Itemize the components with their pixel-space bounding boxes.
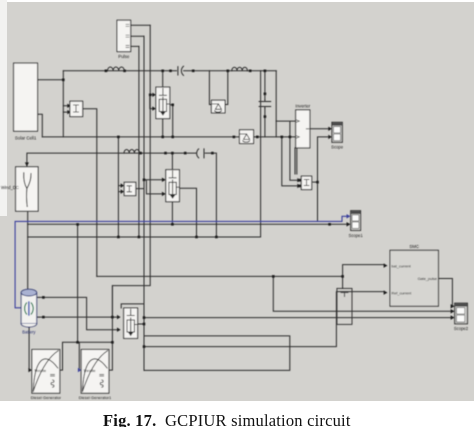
svg-text:Scope: Scope <box>331 145 344 150</box>
wire mosfet2 gate <box>144 180 162 194</box>
wire mosfet3 top link <box>121 304 144 324</box>
wire measure block inputs <box>282 137 298 186</box>
inductor L3 row2 <box>124 150 140 154</box>
svg-text:Gate_pulse: Gate_pulse <box>418 277 437 281</box>
wire solar out1 <box>38 79 64 81</box>
block current sensor B <box>124 182 136 195</box>
wire gate line from pulse p2 long vertical x=144 <box>143 36 145 370</box>
wire mosfet2 right port <box>179 188 196 237</box>
arrowheads blue <box>78 214 351 372</box>
wire diode1 left vertical <box>209 71 211 105</box>
wire shunt capacitor branch x=264.9 <box>264 71 266 137</box>
blue signal wire to scope1 and battery <box>15 216 347 307</box>
svg-text:Diesel Generator1: Diesel Generator1 <box>79 395 112 400</box>
wire battery minus <box>39 316 117 318</box>
svg-text:Diesel Generator: Diesel Generator <box>31 395 62 400</box>
svg-text:Battery: Battery <box>22 330 36 335</box>
svg-text:Ref_current: Ref_current <box>392 291 413 295</box>
wire bus y=225.1 to Scope1 in2 <box>28 223 347 225</box>
wire branch x=273.3 to Scope2 in2 <box>273 276 451 311</box>
wire diesel1 output riser <box>60 224 113 370</box>
wire bus y=237 <box>28 137 261 237</box>
svg-text:SMC: SMC <box>409 244 419 249</box>
wire mosfet1 right port <box>170 105 173 137</box>
capacitor C2 shunt plates <box>259 100 271 108</box>
scope icon Scope2 <box>454 303 469 331</box>
block Wind_DC <box>1 167 38 211</box>
block current sensor A <box>70 101 83 116</box>
svg-text:Inverter: Inverter <box>295 104 310 109</box>
diode D2 <box>240 130 254 144</box>
wire bus y=276.4 to SMC <box>97 265 384 289</box>
svg-text:Throttle: Throttle <box>83 369 95 373</box>
wire pulse p3 vertical <box>138 46 140 237</box>
transistor mosfet1 <box>156 87 170 119</box>
wire dc link right corner x=276.2 <box>275 71 277 137</box>
wire sensor A output down <box>83 109 97 277</box>
wire battery to diesel1 throttle <box>28 327 30 371</box>
wire shunt branch x=260.6 upper <box>260 71 262 137</box>
block Pulse <box>117 20 150 59</box>
wire stubs to current sensor A <box>63 106 67 112</box>
scope icon Scope1 <box>348 211 363 238</box>
wire bus y=136.9 <box>42 136 295 138</box>
wire scope in2 feed x=317.5 <box>318 137 329 222</box>
wire lower rectangle loop <box>144 336 290 371</box>
block measure 2in <box>301 176 311 190</box>
wire battery plus <box>39 297 117 329</box>
svg-text:Scope1: Scope1 <box>348 233 363 238</box>
wire diode1 right vertical <box>225 71 228 105</box>
wire wind to battery vertical x=27.7 <box>27 211 29 289</box>
wire measure block output <box>313 181 318 183</box>
svg-text:Throttle: Throttle <box>34 369 46 373</box>
svg-text:Scope2: Scope2 <box>454 326 469 331</box>
capacitor C1 series top <box>178 66 184 75</box>
inductor L1 top left <box>108 66 271 158</box>
svg-text:Pulse: Pulse <box>118 54 130 59</box>
wire mosfet2 bottom <box>171 202 173 225</box>
capacitor C3 series row2 <box>197 149 204 158</box>
block diesel generator 2 <box>79 350 112 401</box>
inductor L2 top right <box>232 67 248 71</box>
block Inverter <box>295 104 310 148</box>
svg-text:Solar Cell1: Solar Cell1 <box>15 136 37 141</box>
wire mosfet1 top tap <box>162 71 164 87</box>
arrowheads black <box>25 93 455 373</box>
transistor mosfet2 <box>166 170 180 202</box>
wire sensor B vertical x=118.4 <box>118 137 144 237</box>
wire inverter output to scope <box>310 128 329 130</box>
diode D1 <box>211 100 225 113</box>
wire mosfet1 bottom <box>162 119 164 137</box>
figure caption <box>103 413 351 427</box>
wire vertical node x=63.3 <box>62 71 64 137</box>
block SMC <box>390 244 438 306</box>
scope icon Scope <box>331 122 344 149</box>
wire mosfet2 top tap <box>171 153 173 170</box>
wire bus y=346.6 sensor loop <box>144 292 384 347</box>
svg-text:Wind_DC: Wind_DC <box>1 185 19 190</box>
wire pulse p1 vertical and mosfet gates <box>112 25 152 317</box>
block Solar Cell1 <box>14 63 38 140</box>
transistor mosfet3 <box>124 308 138 338</box>
block measurement tall rect <box>337 288 352 324</box>
wire converter row2 from wind top y=153.1 <box>27 153 217 237</box>
wire solar out2 <box>38 114 43 137</box>
wire inverter input box <box>276 121 296 137</box>
block diesel generator 1 <box>31 350 62 401</box>
wire top dc link y=70.8 <box>63 70 276 72</box>
svg-text:bat_current: bat_current <box>392 264 412 268</box>
wire SMC output to Scope2 <box>438 279 452 307</box>
wire diesel2 output riser <box>109 286 113 371</box>
battery cylinder <box>21 289 39 334</box>
wire bus y=317.6 to Scope2 in3 <box>144 317 451 319</box>
